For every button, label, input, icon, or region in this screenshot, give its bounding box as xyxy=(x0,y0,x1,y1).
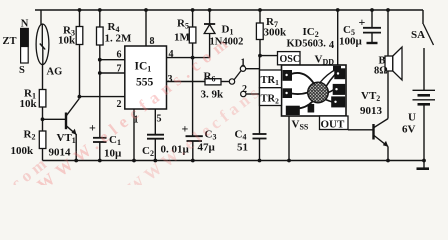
magnet ZT bar xyxy=(21,29,29,64)
resistor R7 300k xyxy=(259,10,261,23)
svg-text:C2: C2 xyxy=(142,145,154,158)
bond wires xyxy=(291,73,315,85)
wire pin6 xyxy=(100,59,125,61)
op IC1 555 box xyxy=(125,46,167,109)
wire reed drop from top rail xyxy=(40,10,42,25)
diode D1 1N4002 xyxy=(209,10,211,24)
node VT1 emitter rail xyxy=(74,159,78,163)
transistor VT2 9013 xyxy=(374,119,389,161)
svg-text:100k: 100k xyxy=(11,145,35,157)
svg-text:8: 8 xyxy=(150,36,155,47)
svg-text:1M: 1M xyxy=(174,32,191,44)
wire R5 to pin4 node xyxy=(192,43,194,58)
wire VDD from rail xyxy=(337,10,339,65)
wire VSS to rail xyxy=(288,116,290,161)
wire pin4 xyxy=(167,57,210,59)
OSC pad box xyxy=(278,52,301,65)
node pin6 xyxy=(98,58,102,62)
resistor R2 100k xyxy=(39,131,46,149)
contact 1 xyxy=(240,66,245,71)
reed switch AG envelope xyxy=(36,24,49,65)
wire R1 to node xyxy=(42,107,44,131)
wire pin3 output xyxy=(167,81,206,83)
transistor VT1 9014 xyxy=(66,99,79,161)
svg-text:ZT: ZT xyxy=(3,36,17,47)
pin 8 stub xyxy=(145,10,147,46)
battery U 6V xyxy=(413,90,436,168)
wire OUT to VT2 base xyxy=(348,129,373,131)
svg-text:R2: R2 xyxy=(24,129,36,142)
svg-text:6: 6 xyxy=(117,50,122,61)
svg-text:N: N xyxy=(21,19,29,30)
wire speaker to VT2 collector xyxy=(387,71,389,119)
switch common contact xyxy=(229,79,234,84)
wire contact1 to TR1 xyxy=(246,68,260,70)
chip blob xyxy=(308,82,329,103)
wire trigger to pin2 xyxy=(79,96,124,98)
svg-text:R6: R6 xyxy=(204,71,216,84)
wire R3 to collector node xyxy=(79,45,81,97)
resistor R1 10k xyxy=(39,90,46,108)
node R1/R2/base junction xyxy=(41,117,45,121)
svg-text:10k: 10k xyxy=(20,98,38,110)
svg-text:10µ: 10µ xyxy=(104,148,122,160)
node pin4 xyxy=(191,56,195,60)
contact 2 xyxy=(241,91,246,96)
wire R6 to switch common xyxy=(221,81,229,83)
svg-text:9013: 9013 xyxy=(360,105,383,117)
wire top rail xyxy=(35,9,423,11)
pin 5 wire xyxy=(154,109,156,135)
switch blade xyxy=(234,71,241,80)
svg-text:3. 9k: 3. 9k xyxy=(201,89,225,101)
node pin7 xyxy=(98,71,102,75)
svg-text:VT1: VT1 xyxy=(57,132,76,145)
wire OSC xyxy=(260,55,278,57)
TR2 pad box xyxy=(260,88,282,106)
wire R2 to rail xyxy=(42,149,44,161)
svg-text:300k: 300k xyxy=(264,27,288,39)
TR1 pad box xyxy=(260,70,282,88)
svg-text:VDD: VDD xyxy=(315,54,335,67)
resistor R5 1M xyxy=(192,10,194,27)
wire pin7 xyxy=(100,72,125,74)
wire contact2 to TR2 xyxy=(246,93,260,95)
resistor R3 10k (pullup) xyxy=(79,10,81,27)
capacitor C4 51 xyxy=(253,133,267,135)
svg-text:S: S xyxy=(19,65,25,76)
svg-text:SA: SA xyxy=(411,29,425,41)
svg-text:U: U xyxy=(408,112,416,124)
OUT pad box xyxy=(320,116,349,130)
svg-text:1. 2M: 1. 2M xyxy=(105,33,133,45)
svg-text:10k: 10k xyxy=(58,35,76,47)
switch SA xyxy=(422,10,424,24)
wire R4 to pins 6/7 and C1 xyxy=(99,45,101,137)
svg-text:OSC: OSC xyxy=(280,54,301,65)
svg-text:OUT: OUT xyxy=(321,119,346,131)
svg-text:C4: C4 xyxy=(235,129,247,142)
svg-text:KD5603.4: KD5603.4 xyxy=(287,39,335,52)
wire R7 to OSC node and C4 xyxy=(259,40,262,135)
svg-text:7: 7 xyxy=(117,64,122,75)
wire reed bottom to R1 xyxy=(42,65,44,90)
bond pads xyxy=(283,70,292,81)
node trigger xyxy=(78,95,82,99)
capacitor C5 100u xyxy=(371,10,373,28)
svg-text:VSS: VSS xyxy=(292,119,309,132)
speaker B 8ohm xyxy=(387,10,389,56)
svg-text:8Ω: 8Ω xyxy=(374,66,388,77)
pin 1 wire xyxy=(133,109,135,161)
wire base xyxy=(43,118,66,120)
svg-text:4: 4 xyxy=(169,49,174,60)
svg-text:6V: 6V xyxy=(402,124,416,136)
resistor R4 1.2M xyxy=(99,10,101,27)
svg-text:VT2: VT2 xyxy=(361,90,380,103)
svg-text:R5: R5 xyxy=(177,18,189,31)
svg-text:100µ: 100µ xyxy=(339,36,363,48)
capacitor C2 0.01u xyxy=(147,134,164,136)
watermark xyxy=(0,31,266,206)
resistor R6 3.9k xyxy=(205,79,221,85)
svg-text:555: 555 xyxy=(136,77,154,89)
reed switch contacts xyxy=(40,25,45,65)
svg-text:IC2: IC2 xyxy=(303,26,319,39)
IC2 KD5603-4 module xyxy=(260,52,347,116)
svg-text:5: 5 xyxy=(157,114,162,125)
wire bottom rail xyxy=(43,160,425,162)
svg-text:AG: AG xyxy=(47,67,63,78)
svg-text:51: 51 xyxy=(237,142,248,154)
svg-text:2: 2 xyxy=(117,99,122,110)
capacitor C3 47u xyxy=(192,58,194,137)
svg-text:1: 1 xyxy=(241,58,246,69)
